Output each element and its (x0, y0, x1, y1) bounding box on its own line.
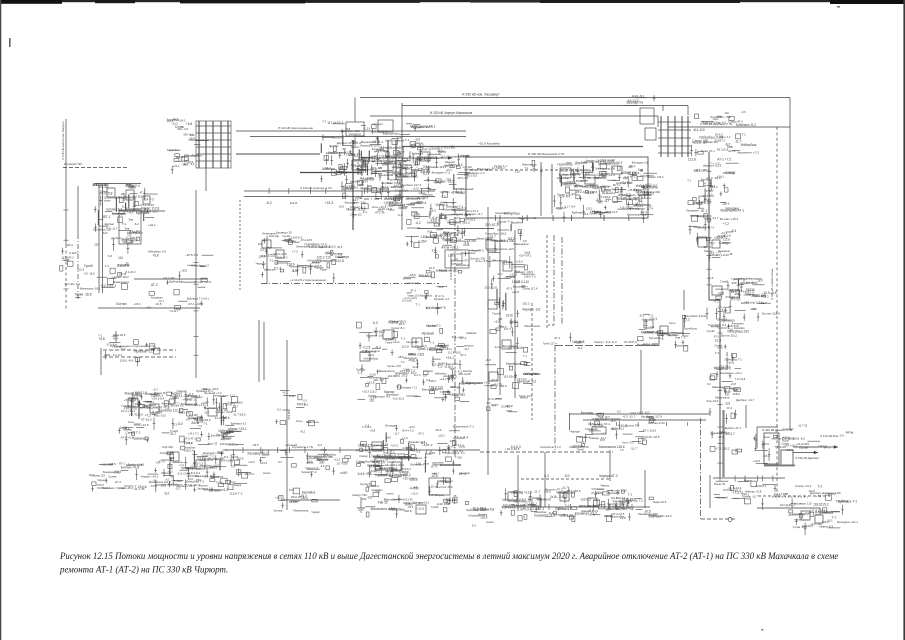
svg-text:Сулак -8,4: Сулак -8,4 (391, 326, 405, 330)
svg-text:+15,3: +15,3 (429, 485, 437, 489)
wire vertical feeder x402 (401, 103, 403, 230)
wire dashed vertical x240 (239, 200, 241, 290)
svg-text:35-330: 35-330 (289, 500, 298, 504)
svg-text:-3,6-+5,8: -3,6-+5,8 (555, 206, 566, 210)
svg-text:АТ-1-2x16: АТ-1-2x16 (643, 429, 657, 433)
svg-text:Тарки: Тарки (465, 214, 472, 217)
svg-text:Гуниб 2x16: Гуниб 2x16 (732, 277, 748, 281)
svg-text:Манас 35: Манас 35 (714, 483, 726, 486)
svg-text:Ленинкент 10,5: Ленинкент 10,5 (103, 470, 122, 474)
svg-text:6,3: 6,3 (173, 423, 178, 427)
wire AT left drop (756, 427, 758, 448)
svg-text:-11,7 35: -11,7 35 (798, 423, 808, 427)
svg-text:АТ-2: АТ-2 (320, 448, 326, 452)
svg-text:-8,4: -8,4 (491, 259, 496, 263)
svg-text:Чирюрт Т-2: Чирюрт Т-2 (301, 470, 317, 474)
svg-text:АТ-210,5: АТ-210,5 (121, 238, 132, 241)
bus gray under AT boxes (764, 465, 795, 467)
svg-text:118,6: 118,6 (763, 442, 770, 446)
bus main lower 110kV (225, 449, 480, 451)
svg-text:115,2: 115,2 (522, 302, 530, 306)
wire dash-dot x555 lower (554, 345, 556, 450)
wire vertical in ring B (551, 164, 553, 214)
svg-text:Буйнакск: Буйнакск (169, 280, 182, 284)
svg-text:-18,5: -18,5 (388, 161, 396, 165)
svg-text:+7,2 115,2: +7,2 115,2 (715, 447, 730, 451)
lower-left group 2 (154, 441, 247, 495)
svg-text:-11,7 -8,4: -11,7 -8,4 (564, 205, 575, 209)
svg-text:Мамедкала: Мамедкала (361, 187, 378, 191)
svg-text:Т-2 112,8: Т-2 112,8 (735, 378, 746, 381)
wire x683 (682, 318, 684, 336)
svg-text:+24,1: +24,1 (446, 356, 455, 360)
svg-text:+15,32x16: +15,32x16 (620, 206, 634, 210)
svg-text:Манас: Манас (744, 479, 753, 483)
feeder mid cluster (696, 229, 737, 262)
svg-text:-11,7-8,4: -11,7-8,4 (409, 487, 419, 490)
svg-text:Ленинкент: Ленинкент (262, 232, 277, 236)
svg-text:-3,6: -3,6 (422, 374, 427, 378)
svg-text:+7,2: +7,2 (402, 436, 408, 440)
svg-text:+24,1: +24,1 (173, 164, 180, 168)
wire chain vertical main (487, 207, 489, 475)
svg-text:-11,7: -11,7 (464, 347, 470, 351)
svg-text:Избербаш: Избербаш (504, 211, 520, 215)
svg-text:Ботлих +15,3: Ботлих +15,3 (720, 217, 739, 221)
svg-text:110: 110 (753, 307, 758, 311)
svg-text:Хасавюрт 6,3: Хасавюрт 6,3 (247, 451, 268, 455)
svg-text:2x16--8,4: 2x16--8,4 (632, 94, 645, 98)
bottom right substation group (789, 499, 859, 535)
svg-text:Т-2: Т-2 (628, 493, 633, 497)
svg-text:Избербаш -6,2: Избербаш -6,2 (191, 264, 209, 268)
svg-text:115,2 Т-2: 115,2 Т-2 (375, 129, 388, 133)
svg-text:6,3: 6,3 (363, 210, 368, 214)
svg-text:-8,4 35: -8,4 35 (118, 273, 126, 276)
svg-text:-6,2: -6,2 (725, 142, 731, 146)
substation Novaya Makhachkala in ring (553, 158, 658, 222)
svg-text:Т-2: Т-2 (620, 448, 624, 452)
svg-text:+15,3: +15,3 (612, 161, 619, 165)
svg-text:Избербаш Т-2: Избербаш Т-2 (725, 358, 742, 362)
svg-text:Шамхал: Шамхал (466, 331, 477, 335)
svg-text:Каспийск: Каспийск (446, 362, 459, 366)
svg-text:Чирюрт -3,6: Чирюрт -3,6 (522, 308, 540, 312)
svg-text:112,8 +7,2: 112,8 +7,2 (579, 504, 592, 508)
wire (644, 470, 646, 508)
svg-text:Дербент: Дербент (511, 220, 523, 224)
svg-text:Чирюрт: Чирюрт (478, 512, 488, 516)
svg-text:-18,5: -18,5 (410, 476, 416, 480)
svg-text:Избербаш: Избербаш (410, 463, 424, 467)
svg-text:+15,3: +15,3 (133, 302, 141, 306)
svg-text:-11,7: -11,7 (721, 231, 728, 235)
svg-text:117,4: 117,4 (717, 306, 725, 310)
svg-text:112,8: 112,8 (260, 247, 268, 251)
svg-text:118,6 -18,5: 118,6 -18,5 (426, 306, 441, 310)
svg-text:118,6: 118,6 (408, 202, 415, 206)
svg-text:Т-1: Т-1 (203, 421, 208, 425)
wire thick vertical x353 (352, 140, 354, 230)
svg-text:Ботлих Т-1: Ботлих Т-1 (65, 282, 81, 286)
svg-text:Кизилюрт: Кизилюрт (503, 345, 518, 349)
svg-text:Чирюрт +24,1: Чирюрт +24,1 (141, 475, 159, 479)
wire connector x545 (544, 452, 546, 507)
svg-text:35 118,6: 35 118,6 (599, 195, 611, 199)
scan speck left (9, 38, 11, 47)
svg-text:Гергебиль: Гергебиль (649, 336, 662, 340)
svg-text:Кизляр: Кизляр (333, 252, 343, 256)
svg-text:+12,5: +12,5 (248, 460, 255, 464)
svg-text:+12,5 АТ-1: +12,5 АТ-1 (713, 236, 728, 240)
svg-text:Гуниб: Гуниб (100, 189, 108, 193)
svg-text:Тарки: Тарки (128, 186, 136, 190)
wire long left vertical (65, 119, 67, 245)
svg-text:117,4: 117,4 (258, 254, 265, 258)
svg-text:110: 110 (258, 242, 263, 246)
svg-text:+12,5: +12,5 (417, 506, 425, 510)
feeder cluster Mamedkala (706, 276, 781, 322)
svg-text:+24,1-330: +24,1-330 (163, 276, 175, 280)
svg-text:Чирюрт АТ-2: Чирюрт АТ-2 (599, 474, 618, 478)
svg-text:Т-1: Т-1 (105, 264, 110, 268)
wire inner dashed tie (470, 169, 590, 171)
svg-text:+12,5: +12,5 (334, 458, 341, 462)
svg-text:Буйнакск: Буйнакск (559, 173, 572, 177)
svg-text:Избербаш -8,4: Избербаш -8,4 (148, 250, 167, 254)
wire y283 dash-dot (261, 283, 439, 285)
boxes under main bus (372, 452, 424, 483)
svg-text:+7,2: +7,2 (732, 295, 738, 299)
svg-text:+12,5: +12,5 (413, 187, 420, 190)
svg-text:АТ-16,3: АТ-16,3 (141, 418, 152, 422)
svg-text:+7,2: +7,2 (713, 299, 719, 303)
svg-text:2x16 112,8: 2x16 112,8 (92, 183, 108, 187)
svg-text:-18,5: -18,5 (316, 458, 323, 462)
svg-text:+5,8: +5,8 (416, 200, 422, 204)
svg-text:АТ-1--18,5: АТ-1--18,5 (409, 353, 424, 357)
svg-text:+5,8: +5,8 (494, 320, 500, 324)
svg-text:Т-1: Т-1 (122, 222, 127, 226)
svg-text:+12,5 -18,5: +12,5 -18,5 (637, 412, 650, 415)
svg-text:-6,2: -6,2 (422, 172, 428, 176)
svg-text:-11,7: -11,7 (577, 340, 584, 344)
svg-text:112,8: 112,8 (364, 128, 371, 131)
svg-text:+5,8: +5,8 (422, 195, 428, 199)
svg-text:115,2-6,3: 115,2-6,3 (559, 514, 571, 518)
svg-text:Сулак: Сулак (356, 460, 366, 464)
svg-text:Махачкала: Махачкала (294, 508, 309, 512)
svg-text:10,5: 10,5 (715, 338, 721, 342)
ring right bays (616, 170, 664, 223)
svg-text:118,6 Т-2: 118,6 Т-2 (524, 274, 536, 278)
svg-text:Т-1: Т-1 (416, 303, 421, 307)
svg-text:Самур: Самур (399, 470, 409, 474)
svg-text:Гергебиль: Гергебиль (683, 327, 698, 331)
svg-text:35-6,2: 35-6,2 (715, 133, 724, 137)
svg-text:6,3-6,3: 6,3-6,3 (511, 445, 521, 449)
mid cluster airport group (356, 319, 490, 402)
svg-text:Ирганай -3,6: Ирганай -3,6 (366, 334, 383, 338)
svg-text:Сулак +5,8: Сулак +5,8 (387, 364, 401, 368)
bottom chain substations B (601, 493, 672, 522)
svg-text:Буйнакск 115,2: Буйнакск 115,2 (426, 165, 447, 169)
svg-text:Т-1: Т-1 (429, 341, 434, 345)
bays under y478 bus (714, 479, 777, 510)
svg-text:117,4: 117,4 (728, 149, 736, 153)
svg-text:Махачкала АТ-1: Махачкала АТ-1 (361, 140, 384, 144)
svg-text:-6,2: -6,2 (188, 392, 194, 396)
bottom chain substations (500, 483, 636, 521)
svg-text:Сулак: Сулак (175, 125, 185, 129)
svg-text:+5,8: +5,8 (98, 337, 105, 341)
svg-text:Ахты +24,1: Ахты +24,1 (441, 246, 458, 250)
svg-text:Ленинкент: Ленинкент (389, 203, 405, 207)
wire 110kV pair lower (250, 136, 466, 138)
svg-text:Чирюрт 110: Чирюрт 110 (692, 141, 708, 145)
small group y480 (428, 478, 457, 504)
svg-text:Белиджи: Белиджи (387, 393, 399, 397)
transformer bank Chiryurt 330/110 (196, 121, 231, 168)
svg-text:35-Т-2: 35-Т-2 (520, 508, 529, 512)
svg-text:-6,2АТ-1: -6,2АТ-1 (69, 251, 79, 255)
svg-text:Кизилюрт: Кизилюрт (783, 427, 795, 431)
wire dotted y497 (772, 496, 808, 498)
wire vertical in ring A (540, 162, 542, 216)
svg-text:Ахты 35: Ахты 35 (208, 442, 218, 446)
svg-text:Т-1: Т-1 (523, 354, 527, 358)
svg-text:6,3: 6,3 (617, 409, 621, 413)
svg-text:-11,7 -3,6: -11,7 -3,6 (183, 162, 195, 166)
svg-text:-8,4 +24,1: -8,4 +24,1 (784, 443, 797, 447)
svg-text:АТ-1 -6,2: АТ-1 -6,2 (730, 299, 741, 302)
svg-text:6,3--8,4: 6,3--8,4 (606, 340, 617, 344)
wire feeder jog a (697, 236, 707, 238)
svg-text:+15,3 330: +15,3 330 (444, 145, 456, 149)
svg-text:Кизляр: Кизляр (463, 369, 473, 373)
svg-text:Ирганай: Ирганай (586, 427, 598, 431)
svg-text:+5,8: +5,8 (370, 428, 376, 432)
wire y279 left (134, 278, 207, 280)
svg-text:10,5: 10,5 (600, 438, 606, 442)
svg-text:Избербаш: Избербаш (435, 373, 447, 376)
svg-text:112,8: 112,8 (385, 196, 392, 200)
svg-text:110: 110 (724, 111, 729, 115)
svg-text:Сулак: Сулак (108, 475, 117, 479)
bays below Makhachkala (405, 212, 476, 247)
svg-text:6,3--8,4: 6,3--8,4 (107, 343, 117, 347)
svg-text:Сулак 110: Сулак 110 (350, 214, 362, 217)
transformer box T-1 Makhachkala (445, 250, 469, 268)
svg-text:Махачкала: Махачкала (595, 417, 609, 421)
svg-text:Чирюрт: Чирюрт (570, 429, 581, 433)
svg-text:Махачкала -18,5: Махачкала -18,5 (378, 173, 401, 177)
svg-text:2x16: 2x16 (429, 451, 436, 455)
svg-text:АТ-1: АТ-1 (460, 353, 466, 357)
svg-text:-8,4АТ-2: -8,4АТ-2 (438, 363, 448, 366)
svg-text:112,8: 112,8 (688, 157, 696, 161)
svg-text:Т-1: Т-1 (401, 337, 406, 341)
svg-text:Кизляр -18,5: Кизляр -18,5 (570, 172, 589, 176)
svg-text:+7,2: +7,2 (601, 432, 607, 436)
svg-text:2x16--3,6: 2x16--3,6 (550, 495, 564, 499)
svg-text:6,3: 6,3 (384, 497, 388, 501)
svg-text:10,5 117,4: 10,5 117,4 (450, 393, 464, 397)
svg-text:6,3: 6,3 (373, 321, 378, 325)
svg-text:Каспийск 330: Каспийск 330 (642, 190, 660, 194)
svg-text:-8,4: -8,4 (113, 337, 118, 341)
svg-text:-8,4-112,8: -8,4-112,8 (627, 99, 639, 103)
svg-text:35: 35 (385, 443, 389, 447)
svg-text:Избербаш: Избербаш (364, 356, 379, 360)
svg-text:АТ-1: АТ-1 (594, 498, 600, 502)
svg-text:Ахты -18,5: Ахты -18,5 (154, 415, 167, 418)
svg-text:Л 330 кВ новая схема: Л 330 кВ новая схема (770, 269, 774, 300)
svg-text:Кизляр 110: Кизляр 110 (91, 474, 105, 478)
svg-text:115,2: 115,2 (429, 379, 436, 383)
wire (609, 450, 611, 481)
svg-text:Т-2: Т-2 (733, 388, 738, 392)
feeder lower chain taps (706, 317, 754, 454)
svg-text:Чирюрт: Чирюрт (359, 167, 370, 171)
svg-text:Ахты: Ахты (846, 431, 854, 435)
wire left dashed (63, 167, 128, 169)
svg-text:Самур: Самур (359, 454, 368, 458)
svg-text:112,82x16: 112,82x16 (133, 195, 146, 199)
svg-text:Манас 118,6: Манас 118,6 (477, 236, 492, 240)
svg-text:110: 110 (515, 170, 520, 174)
below left bays (97, 254, 136, 290)
svg-text:115,2: 115,2 (500, 325, 507, 329)
svg-text:+5,8: +5,8 (730, 382, 736, 386)
svg-text:АТ-1-+24,1: АТ-1-+24,1 (121, 409, 136, 413)
svg-text:+12,5: +12,5 (77, 267, 85, 271)
svg-text:Сулак +15,3: Сулак +15,3 (792, 512, 809, 516)
wire corner drop x688 (687, 106, 689, 116)
svg-text:112,8: 112,8 (232, 455, 239, 459)
svg-text:+24,1: +24,1 (588, 513, 595, 517)
svg-text:АТ-1 35: АТ-1 35 (216, 408, 227, 412)
wire vertical x267 (266, 236, 268, 284)
svg-text:Махачкала -18,5: Махачкала -18,5 (80, 287, 101, 291)
svg-text:118,6: 118,6 (448, 254, 456, 258)
svg-text:Ботлих: Ботлих (199, 483, 208, 487)
wire vertical x196 trunk (195, 190, 197, 378)
svg-text:Махачкала: Махачкала (102, 487, 115, 490)
svg-text:6,3: 6,3 (450, 373, 455, 377)
svg-text:Тарки -3,6: Тарки -3,6 (448, 162, 463, 166)
wire tick x116 (115, 331, 117, 342)
svg-text:АТ-1: АТ-1 (431, 493, 437, 497)
svg-text:Сулак: Сулак (707, 329, 716, 333)
svg-text:330: 330 (446, 177, 451, 181)
svg-text:Белиджи: Белиджи (477, 167, 490, 171)
bus thick y172 (300, 172, 362, 174)
wire y479 dashed (521, 478, 610, 480)
svg-text:Мамедкала: Мамедкала (266, 245, 282, 249)
svg-text:Тарки: Тарки (436, 493, 444, 497)
svg-text:+5,8: +5,8 (338, 205, 344, 209)
svg-text:-18,5--6,2: -18,5--6,2 (452, 449, 464, 453)
svg-text:2x16--18,5: 2x16--18,5 (645, 435, 660, 439)
svg-text:6,3: 6,3 (432, 208, 436, 212)
bus left 110kV (94, 183, 141, 185)
svg-text:Ирганай: Ирганай (422, 332, 434, 336)
svg-text:Гергебиль -18,5: Гергебиль -18,5 (200, 464, 219, 468)
svg-text:+5,8: +5,8 (427, 229, 433, 233)
svg-text:Касумкент: Касумкент (655, 331, 668, 335)
svg-text:-11,7: -11,7 (342, 195, 349, 199)
ring bus top labels (477, 160, 542, 177)
substation Kizilyurt group (320, 120, 436, 183)
svg-text:-8,410,5: -8,410,5 (209, 475, 219, 479)
svg-text:-18,5: -18,5 (385, 436, 392, 440)
svg-text:2x16: 2x16 (506, 314, 513, 318)
svg-text:Сулак 35: Сулак 35 (360, 482, 372, 486)
svg-text:Ахты: Ахты (669, 321, 676, 325)
wire chain vertical A (499, 215, 501, 395)
svg-text:+15,3: +15,3 (261, 461, 268, 465)
svg-text:-6,2: -6,2 (438, 285, 444, 289)
wire (354, 98, 356, 123)
svg-text:Л 110 кВ Яла: Л 110 кВ Яла (820, 434, 838, 438)
svg-text:Белиджи Т-1: Белиджи Т-1 (446, 204, 463, 208)
svg-text:-11,7: -11,7 (760, 301, 767, 305)
svg-text:АТ-1: АТ-1 (135, 393, 141, 397)
wire bank down-connector (205, 168, 207, 191)
svg-text:Т-1-115,2: Т-1-115,2 (457, 154, 470, 158)
svg-text:+7,2: +7,2 (179, 463, 185, 467)
svg-text:-3,6: -3,6 (189, 477, 194, 481)
svg-text:10,5 112,8: 10,5 112,8 (484, 286, 497, 290)
svg-text:Сулак +15,3: Сулак +15,3 (116, 486, 134, 490)
svg-text:Тарки: Тарки (449, 367, 456, 370)
svg-text:-8,4: -8,4 (386, 181, 392, 185)
svg-text:Ирганай -11,7: Ирганай -11,7 (134, 350, 154, 354)
wire bottom left chain (283, 499, 340, 501)
svg-text:-11,7: -11,7 (158, 300, 164, 303)
ring bus rectangle Makhachkala 110kV (466, 157, 648, 218)
svg-text:Белиджи 110: Белиджи 110 (632, 161, 649, 165)
substation bays left group (92, 183, 159, 254)
svg-text:Т-2: Т-2 (715, 351, 720, 355)
svg-text:+24,1: +24,1 (184, 397, 192, 401)
svg-text:+12,5-+7,2: +12,5-+7,2 (275, 255, 288, 259)
svg-text:АТ-2: АТ-2 (68, 255, 74, 259)
svg-text:АТ-2-18,5: АТ-2-18,5 (301, 238, 313, 242)
svg-text:110--6,2: 110--6,2 (373, 378, 384, 382)
svg-text:-8,4-+7,2: -8,4-+7,2 (451, 335, 463, 339)
wire dashed bottom right (758, 495, 830, 497)
autotransformer AT-1 tall box (764, 433, 779, 464)
svg-text:Хив 6,3: Хив 6,3 (616, 496, 626, 500)
svg-text:Ирганай: Ирганай (393, 139, 404, 143)
wire y211 left (119, 210, 165, 212)
arrow into ring bus (362, 156, 452, 159)
svg-text:Касумкент +7,2: Касумкент +7,2 (155, 482, 177, 486)
wire 330kV tie (370, 115, 658, 117)
svg-text:35: 35 (453, 494, 457, 498)
sparse labels below bank (148, 250, 214, 296)
svg-text:118,6 -8,4: 118,6 -8,4 (120, 358, 134, 362)
svg-text:-8,4+24,1: -8,4+24,1 (432, 216, 446, 220)
svg-text:Касумкент АТ-2: Касумкент АТ-2 (451, 258, 470, 262)
small bottom centre tap (465, 501, 494, 527)
svg-text:112,8: 112,8 (544, 489, 551, 493)
svg-text:Ботлих: Ботлих (116, 302, 127, 306)
wire vertical x287 (286, 340, 288, 510)
lower-middle dense substation group (356, 424, 475, 518)
